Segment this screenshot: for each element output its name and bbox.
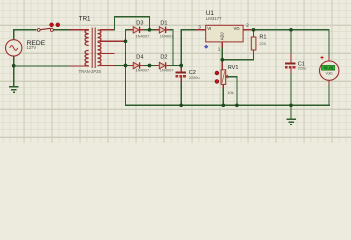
pin: secondary top pin — [100, 29, 114, 30]
AC source V1 (REDE) — [6, 40, 22, 56]
svg-text:1N4007: 1N4007 — [160, 34, 174, 39]
node: source bottom junction — [12, 64, 16, 68]
pin: transformer primary bottom pin — [69, 65, 89, 66]
wire: RV1 bottom to rail — [223, 89, 224, 106]
RV1 actuator red dots — [215, 71, 219, 75]
wire: ground stem left — [13, 65, 14, 86]
svg-text:1: 1 — [218, 46, 221, 51]
node: R1 top junction — [252, 28, 256, 32]
wire: RV1 wiper to drop — [228, 76, 238, 77]
node: D4 anode junction — [124, 64, 128, 68]
switch SW (contacts + lever) — [37, 28, 53, 31]
svg-text:TR1: TR1 — [79, 16, 91, 23]
svg-text:R1: R1 — [259, 35, 266, 41]
svg-text:D1: D1 — [160, 21, 167, 27]
svg-text:2200u: 2200u — [189, 75, 200, 80]
wire: C1 top lead green — [290, 29, 291, 53]
RV1 internal track line — [222, 71, 225, 83]
svg-text:3: 3 — [198, 24, 201, 29]
pin: C1 bottom lead red — [290, 68, 291, 73]
ground (left, under source) — [9, 86, 19, 93]
red plus marker near voltmeter — [320, 56, 323, 59]
capacitor C2 — [176, 72, 187, 106]
node: RV1 bottom rail junction — [221, 103, 225, 107]
wire: D1 cathode corner down to D2 row (DC tie) — [172, 29, 173, 66]
wire: left vertical (D3 anode tie down to bottom rail) — [125, 29, 126, 106]
svg-text:1N4007: 1N4007 — [160, 68, 174, 73]
svg-text:VI: VI — [207, 26, 211, 31]
pin: C2 bottom lead red — [181, 77, 182, 82]
node: ADJ junction — [220, 58, 224, 62]
node: ground rail junction — [289, 103, 293, 107]
wire: C1 bottom lead — [290, 73, 291, 105]
junction node dots — [12, 28, 293, 107]
svg-text:2: 2 — [246, 23, 249, 28]
svg-text:220u: 220u — [298, 65, 307, 70]
node: D4/D2 junction — [148, 64, 152, 68]
voltmeter — [320, 61, 339, 80]
svg-text:D4: D4 — [136, 55, 143, 61]
node: C1 top junction — [289, 28, 293, 32]
switch actuator red dots — [50, 23, 54, 27]
node: secondary pin2 junction — [124, 39, 128, 43]
node: C2 top junction — [179, 64, 183, 68]
pin: voltmeter top pin — [328, 57, 329, 63]
primary winding coil 1 (4 arcs, bulge left) — [85, 30, 89, 46]
svg-text:VO: VO — [234, 26, 241, 31]
pin: secondary bottom pin — [100, 65, 114, 66]
background grid — [0, 0, 351, 143]
svg-text:1N4007: 1N4007 — [136, 34, 150, 39]
wire: C2 bottom lead — [181, 82, 182, 105]
pin: RV1 bottom lead — [223, 84, 224, 88]
pin: secondary pin 3 (unconnected stub) — [100, 53, 114, 54]
transformer core lines — [91, 28, 93, 69]
blue marker near U1 — [204, 45, 208, 48]
pin: U1 VI pin — [196, 29, 206, 30]
node: wiper rail junction — [235, 103, 239, 107]
wire: C2 node vertical (up to VI wire, down to C2) — [181, 29, 182, 67]
wire: secondary bottom pin to node — [115, 65, 126, 66]
diode D2 — [150, 62, 170, 69]
secondary coil 3 (3 arcs, bulge right) — [98, 54, 101, 65]
resistor R1 — [251, 37, 256, 50]
wire: voltmeter bottom to rail — [328, 85, 329, 106]
potentiometer RV1 — [221, 70, 226, 85]
regulator U1 LM317T — [206, 25, 243, 42]
wire: ground stem right — [290, 105, 291, 119]
pin: secondary pin 2 (long, to node) — [100, 41, 125, 42]
wire: top rail down to D3/D1 node — [149, 16, 150, 31]
wire: VI wire horizontal to U1 — [181, 29, 196, 30]
secondary coil 1 (3 arcs, bulge right) — [98, 30, 101, 41]
wire: source top vertical — [13, 29, 14, 40]
wire: D4 row left segment — [125, 65, 133, 66]
pin: U1 VO pin — [243, 29, 251, 30]
svg-text:RV1: RV1 — [228, 65, 239, 71]
diode D1 — [150, 27, 174, 33]
ground (right) — [286, 119, 296, 126]
svg-text:D2: D2 — [160, 55, 167, 61]
wire: wiper drop to bottom rail — [236, 76, 237, 106]
primary winding coil 2 (4 arcs, bulge left) — [85, 50, 89, 66]
diode D4 — [130, 62, 150, 69]
wire: source top to switch — [13, 29, 36, 30]
wire: source bottom to transformer — [13, 65, 69, 66]
svg-text:LM317T: LM317T — [206, 16, 222, 21]
wire: secondary top pin up — [114, 16, 115, 31]
pin: C1 top lead red — [290, 53, 291, 62]
wire: bottom rail — [125, 105, 330, 106]
wire: ADJ node to R1 bottom — [222, 59, 255, 60]
svg-text:220: 220 — [259, 41, 266, 46]
pin: R1 top lead — [253, 29, 254, 37]
secondary coil 2 (3 arcs, bulge right) — [98, 42, 101, 53]
wire: D2 row to C2 node — [170, 65, 182, 66]
RV1 wiper arrow — [226, 75, 229, 78]
svg-text:Volts: Volts — [326, 71, 334, 75]
wire: source bottom vertical — [13, 56, 14, 66]
svg-text:ADJ: ADJ — [219, 32, 224, 40]
wire: R1 bottom vertical — [253, 54, 254, 60]
svg-text:D3: D3 — [136, 21, 143, 27]
wire: switch to transformer primary — [54, 29, 70, 30]
wire: D3 row left segment — [125, 29, 133, 30]
capacitor C1 — [285, 63, 296, 69]
svg-text:TRAN-2P3S: TRAN-2P3S — [79, 69, 102, 74]
svg-text:10k: 10k — [227, 90, 233, 95]
diode D3 — [130, 27, 150, 33]
pin: voltmeter bottom pin — [328, 80, 329, 85]
wire: ADJ vertical — [222, 48, 223, 63]
node: D3/D1 junction — [148, 28, 152, 32]
wire: VO output rail to voltmeter corner — [251, 29, 329, 30]
node: C2 bottom rail junction — [179, 103, 183, 107]
svg-text:1N4007: 1N4007 — [136, 68, 150, 73]
pin: RV1 top pin — [222, 63, 223, 70]
pin: transformer primary top pin — [70, 29, 89, 30]
pin: U1 ADJ pin — [222, 42, 223, 48]
wire: output rail corner down to voltmeter — [328, 29, 329, 56]
wire: top rail horizontal — [114, 16, 150, 17]
svg-text:127V: 127V — [26, 45, 36, 50]
transformer TR1 — [85, 28, 101, 69]
pin: R1 bottom lead — [253, 50, 254, 54]
